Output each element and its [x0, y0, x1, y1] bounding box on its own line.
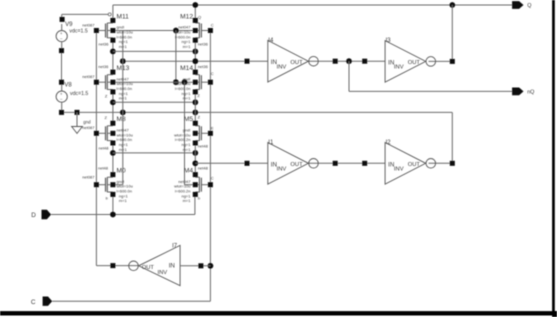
label C	[31, 299, 36, 306]
svg-text:M13: M13	[117, 65, 130, 72]
junction dot right chain row1-2	[192, 49, 198, 55]
transistor M0	[94, 168, 133, 204]
square I3 output	[450, 59, 455, 64]
svg-text:C: C	[211, 22, 214, 27]
square I2 output	[450, 161, 455, 166]
transistor M12	[174, 13, 213, 49]
svg-text:OUT: OUT	[290, 60, 303, 66]
label D	[31, 212, 36, 219]
svg-text:M8: M8	[117, 116, 126, 123]
square I1 input	[245, 161, 250, 166]
svg-text:m=1: m=1	[183, 96, 192, 101]
wire M11 bulk rail row1	[113, 30, 195, 32]
junction dot right chain to I1 input	[192, 160, 198, 166]
inverter I3	[385, 38, 436, 82]
label net48 right lower	[198, 165, 209, 170]
junction dot gnd rail / right chain	[192, 110, 198, 116]
svg-text:OUT: OUT	[290, 162, 303, 168]
svg-text:I1: I1	[268, 140, 274, 146]
window border corner patch	[552, 311, 557, 317]
svg-text:net36: net36	[198, 42, 209, 47]
svg-text:I4: I4	[268, 38, 274, 44]
transistor M5	[174, 116, 213, 152]
svg-text:Z: Z	[197, 93, 200, 98]
wire M0 bulk stub to bulk line	[113, 184, 123, 186]
wire D input line	[51, 194, 195, 214]
svg-text:m=1: m=1	[119, 147, 128, 152]
output pin Q	[512, 1, 523, 9]
svg-text:I3: I3	[386, 38, 392, 44]
svg-text:m=1: m=1	[119, 198, 128, 203]
svg-text:net48: net48	[98, 166, 109, 171]
wire V9 plus terminal rail (net087 stub)	[62, 14, 109, 19]
svg-text:net36: net36	[99, 42, 110, 47]
label Z M14 source	[197, 93, 200, 98]
junction dot net047 wire at x175.9	[173, 79, 179, 85]
svg-text:I7: I7	[172, 244, 178, 250]
square I2 input	[362, 161, 367, 166]
svg-text:net48: net48	[198, 144, 209, 149]
voltage source V8	[56, 80, 67, 115]
svg-text:net48: net48	[198, 165, 209, 170]
label net36 right lower	[198, 64, 209, 69]
transistor M8	[94, 116, 133, 152]
wire net36 to I4 input	[123, 60, 268, 62]
input pin C	[43, 297, 53, 306]
wire right chain M5-M4	[194, 143, 196, 175]
svg-text:I2: I2	[386, 140, 392, 146]
svg-text:INV: INV	[277, 64, 287, 70]
wire I7 input to C line	[180, 265, 210, 267]
wire left gate line net087 / E from I7 output	[96, 31, 138, 266]
label net087 row4	[82, 175, 95, 180]
open end circle on V9 wire	[108, 13, 111, 16]
wire left chain M8-M0	[112, 143, 114, 175]
svg-text:INV: INV	[394, 65, 404, 71]
inverter I7 (mirrored)	[129, 244, 180, 286]
svg-text:C: C	[31, 299, 36, 306]
label gnd	[83, 120, 91, 125]
label E at M5 gate	[211, 126, 214, 131]
svg-text:gnd: gnd	[83, 120, 91, 125]
label Z M5 drain	[198, 114, 201, 119]
wire nQ branch down and right to nQ pin	[349, 61, 514, 91]
svg-text:M4: M4	[184, 168, 193, 175]
svg-text:OUT: OUT	[408, 60, 421, 66]
input pin D	[42, 210, 52, 219]
label V8	[64, 83, 72, 89]
svg-text:IN: IN	[169, 263, 175, 270]
junction dot D line at left chain	[110, 212, 116, 218]
label net36 left upper	[99, 42, 110, 47]
ground symbol	[72, 112, 83, 133]
label Q at M12 drain	[198, 14, 201, 19]
wire V9 minus to V8 plus	[61, 51, 63, 83]
svg-text:Z: Z	[198, 114, 201, 119]
svg-text:m=1: m=1	[183, 44, 192, 49]
wire Q rail (top, net Q)	[113, 4, 514, 6]
label net48 left lower	[98, 166, 109, 171]
junction dot left chain row1-2	[110, 49, 116, 55]
wire M4 bulk stub to bulk link	[185, 184, 196, 186]
svg-text:nQ: nQ	[527, 89, 534, 95]
svg-text:−: −	[60, 97, 63, 102]
label V8 vdc=1.5	[70, 91, 88, 97]
junction dot gnd rail / M11 bulk line	[120, 110, 126, 116]
wire right chain node to I1 input	[195, 162, 267, 164]
label net48 left upper	[99, 146, 110, 151]
svg-text:net36: net36	[98, 64, 109, 69]
wire left chain M13-M8	[112, 92, 114, 123]
junction dot left chain node Z	[110, 99, 116, 105]
wire I2 output to loop square	[429, 162, 453, 164]
svg-text:net087: net087	[82, 22, 95, 27]
svg-text:m=1: m=1	[183, 198, 192, 203]
voltage source V9	[56, 17, 67, 53]
label D net at M4 source	[198, 196, 201, 201]
svg-text:Z: Z	[105, 115, 108, 120]
junction dot net047 wire at x184.5	[182, 79, 188, 85]
wire net48 cross link	[113, 152, 195, 154]
wire M11 drain to Q rail	[112, 5, 114, 20]
svg-text:C: C	[211, 71, 214, 76]
junction dot right chain node Z	[192, 99, 198, 105]
svg-text:M5: M5	[184, 116, 193, 123]
svg-text:Z: Z	[105, 93, 108, 98]
svg-text:INV: INV	[277, 167, 287, 173]
wire net047 bulk rail row2	[113, 81, 195, 83]
label V9 vdc=1.5	[69, 29, 87, 35]
svg-text:m=1: m=1	[119, 44, 128, 49]
svg-text:M11: M11	[117, 13, 130, 20]
inverter I1	[268, 140, 319, 184]
svg-text:m=1: m=1	[119, 96, 128, 101]
label net36 left lower	[98, 64, 109, 69]
svg-text:net087: net087	[82, 74, 95, 79]
transistor M14	[174, 65, 213, 101]
label Q	[527, 3, 531, 9]
svg-text:INV: INV	[394, 167, 404, 173]
svg-text:M14: M14	[180, 65, 193, 72]
junction dot Q rail / M12 drain	[192, 2, 198, 8]
svg-text:M12: M12	[180, 13, 193, 20]
inverter I2	[385, 140, 436, 184]
svg-text:C: C	[211, 175, 214, 180]
svg-text:net087: net087	[82, 175, 95, 180]
wire gnd rail from V8 minus to I2 output loop	[62, 112, 453, 163]
wire right transistor chain M12-M14	[194, 40, 196, 72]
wire I3 output up-branch to Q rail	[451, 5, 453, 61]
label net087 row3	[82, 125, 95, 130]
junction dot bulk rail row1 at x175.9	[173, 28, 179, 34]
wire clock line C (right gate line)	[209, 31, 211, 302]
svg-text:net087: net087	[82, 125, 95, 130]
label net48 right upper	[198, 144, 209, 149]
svg-text:V9: V9	[65, 22, 73, 28]
junction dot nQ branch	[346, 58, 352, 64]
transistor M4	[174, 168, 213, 204]
square I3 input	[362, 59, 367, 64]
svg-text:OUT: OUT	[408, 162, 421, 168]
square gnd stub on rail	[75, 110, 80, 115]
junction dot right chain net48	[192, 150, 198, 156]
label net36 right upper	[198, 42, 209, 47]
svg-text:M0: M0	[117, 168, 126, 175]
label net087 row1	[82, 22, 95, 27]
label V9	[65, 22, 73, 28]
wire I4 input square region	[245, 59, 250, 64]
wire left transistor chain M11-M13	[112, 40, 114, 72]
square I7 output	[110, 263, 115, 268]
junction dot Q rail / I3 output branch	[449, 2, 455, 8]
transistor M13	[94, 65, 133, 101]
square I1 output	[333, 161, 338, 166]
svg-text:Q: Q	[198, 14, 201, 19]
svg-text:E: E	[211, 126, 214, 131]
label C at M14 gate	[211, 71, 214, 76]
wire M12 drain to Q rail	[194, 5, 196, 20]
square I4 output	[333, 59, 338, 64]
svg-text:m=1: m=1	[183, 147, 192, 152]
transistor M11	[94, 13, 133, 49]
svg-text:b: b	[198, 196, 201, 201]
svg-text:vdc=1.5: vdc=1.5	[69, 29, 87, 35]
junction dot net36 at right chain	[192, 58, 198, 64]
wire bulk link x184.5 down to M4 bulk	[184, 82, 186, 185]
svg-text:INV: INV	[158, 270, 168, 276]
window border bottom bar	[0, 311, 557, 315]
svg-text:V8: V8	[64, 83, 72, 89]
svg-text:net48: net48	[99, 146, 110, 151]
wire right chain M14-M5	[194, 92, 196, 123]
label Z M13 source	[105, 93, 108, 98]
wire cross-couple row1 (net36)	[113, 50, 195, 52]
label C at M12 gate	[211, 22, 214, 27]
op-amp style inverter I4	[268, 38, 319, 82]
square I7 input	[198, 263, 203, 268]
label Z M8 drain	[105, 115, 108, 120]
svg-text:net36: net36	[198, 64, 209, 69]
wire mid cross link x175.9	[175, 31, 177, 83]
junction dot net36 at bulk line	[120, 58, 126, 64]
label C at M4 gate	[211, 175, 214, 180]
wire I1 output to I2 input	[308, 162, 385, 164]
window border right bar	[552, 0, 555, 316]
label net087 row2	[82, 74, 95, 79]
junction dot left chain net48	[110, 150, 116, 156]
output pin nQ	[512, 88, 523, 96]
wire C input line	[52, 300, 210, 302]
label D net at M0 source	[106, 195, 109, 200]
wire I4 output to I3 input	[308, 60, 385, 62]
svg-text:b: b	[106, 195, 109, 200]
svg-text:vdc=1.5: vdc=1.5	[70, 91, 88, 97]
wire M0 source down to D line	[112, 194, 114, 214]
junction dot C line at I7 input	[208, 263, 214, 269]
wire M11 bulk line down to gnd rail and M0 bulk	[122, 31, 124, 185]
svg-text:D: D	[31, 212, 36, 219]
svg-text:−: −	[60, 36, 63, 41]
wire node Z cross link	[113, 101, 195, 103]
wire I3 output to branch square	[429, 60, 453, 62]
svg-text:OUT: OUT	[142, 265, 155, 271]
label nQ	[527, 89, 534, 95]
svg-text:Q: Q	[527, 3, 531, 9]
